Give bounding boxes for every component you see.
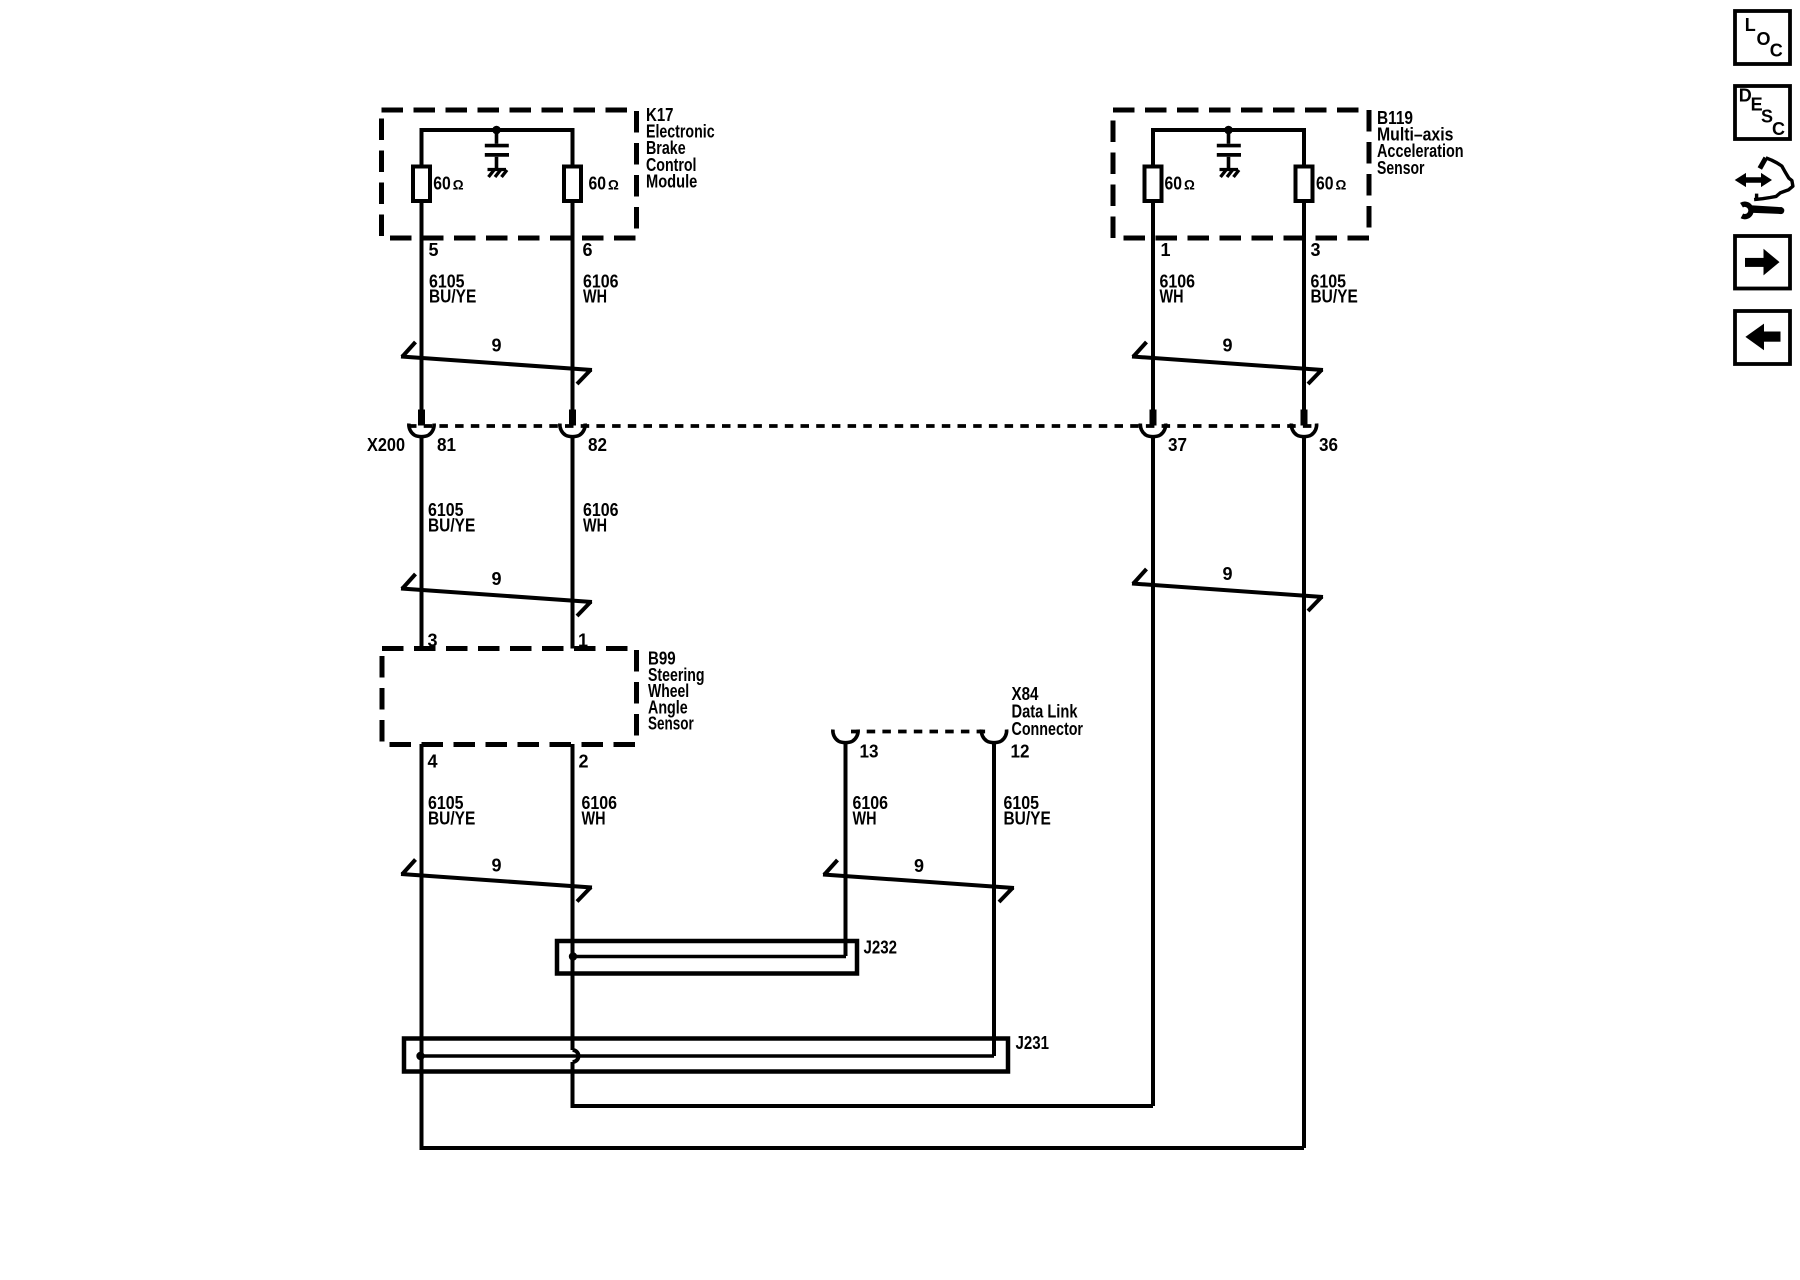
svg-text:36: 36: [1319, 435, 1338, 455]
twisted pair symbol (below X84): [823, 860, 1014, 902]
svg-text:J231: J231: [1016, 1033, 1050, 1053]
svg-text:82: 82: [588, 435, 607, 455]
twisted pair symbol (B119 side): [1132, 342, 1323, 384]
wire: J232 internal splice wire: [573, 955, 846, 959]
ground (B119 chassis ground): [1220, 170, 1240, 178]
svg-text:BU/YE: BU/YE: [1004, 809, 1051, 829]
X84 pin 12 terminal: [981, 730, 1006, 743]
svg-text:13: 13: [860, 742, 879, 762]
ground (K17 chassis ground): [488, 170, 508, 178]
X200 pin 36 terminal: [1291, 410, 1316, 437]
wire label 6105 BU/YE: [428, 793, 475, 829]
B99 sensor dashed box: [382, 649, 637, 745]
X84 label: [1012, 684, 1084, 739]
X200 pin 81 terminal: [409, 410, 434, 437]
svg-text:WH: WH: [583, 516, 607, 536]
svg-text:3: 3: [1311, 240, 1321, 260]
resistor 60ohm (B119 left): [1145, 167, 1162, 202]
svg-text:BU/YE: BU/YE: [429, 286, 476, 306]
svg-text:9: 9: [491, 856, 501, 876]
icon car with double arrow and wrench: [1735, 158, 1793, 217]
wire: K17 pin5 upper: [420, 128, 424, 167]
svg-text:C: C: [1770, 41, 1783, 61]
wire 6106 WH (B99-2 down through J232, J231 hop, across to X200-37): [571, 438, 1154, 1107]
connector X84 dashed line: [851, 730, 987, 734]
wire 6105 BU/YE (X200-81 to B99-3): [420, 438, 424, 649]
wire: B119 internal bus horizontal: [1151, 128, 1306, 132]
svg-text:9: 9: [1222, 564, 1232, 584]
wire label 6105 BU/YE: [1311, 271, 1358, 306]
wire label 6106 WH: [1160, 271, 1196, 306]
K17 label: [646, 105, 715, 191]
svg-text:Sensor: Sensor: [648, 714, 694, 734]
wire label 6106 WH: [582, 793, 618, 829]
wire label 6106 WH: [853, 793, 889, 829]
splice J231 box: [404, 1039, 1008, 1072]
wire: B119 pin3 upper: [1302, 128, 1306, 167]
svg-text:WH: WH: [582, 809, 606, 829]
svg-text:2: 2: [579, 752, 589, 772]
svg-text:6: 6: [583, 240, 593, 260]
wire 6105 BU/YE (B99-4 down to J231 and across to X200-36): [420, 438, 1305, 1149]
icon forward arrow box: [1735, 236, 1790, 289]
svg-text:9: 9: [491, 569, 501, 589]
capacitor C (B119 filter cap): [1217, 130, 1241, 168]
svg-text:Connector: Connector: [1012, 719, 1084, 739]
K17 module dashed box: [382, 110, 637, 238]
svg-text:9: 9: [1222, 336, 1232, 356]
node: K17 junction dot: [492, 126, 501, 135]
wire 6105 BU/YE (X84-12 down to J231): [992, 741, 996, 1056]
svg-text:Module: Module: [646, 171, 697, 191]
twisted pair symbol (below B99): [401, 860, 592, 902]
svg-text:81: 81: [437, 435, 456, 455]
svg-text:Sensor: Sensor: [1377, 158, 1425, 178]
wire: K17 internal bus horizontal: [420, 128, 575, 132]
wire: K17 pin6 upper: [571, 128, 575, 167]
B99 label: [648, 649, 705, 734]
B119 label: [1377, 108, 1464, 178]
wire: B119 pin1 upper: [1151, 128, 1155, 167]
wire label 6105 BU/YE: [1004, 793, 1051, 829]
wire label 6105 BU/YE: [429, 271, 476, 306]
wire label 6106 WH: [583, 500, 619, 536]
icon LOC box: [1735, 11, 1790, 64]
resistor 60ohm (K17 left): [413, 167, 430, 202]
svg-text:12: 12: [1011, 742, 1030, 762]
node: J232 splice dot: [569, 952, 577, 960]
svg-text:BU/YE: BU/YE: [1311, 286, 1358, 306]
wire label 6106 WH: [583, 271, 619, 306]
svg-text:J232: J232: [864, 938, 898, 958]
wire 6106 WH (K17 pin6 to X200-82): [571, 201, 575, 410]
svg-text:O: O: [1757, 29, 1771, 49]
splice J232 box: [557, 941, 857, 974]
wire 6105 BU/YE (K17 pin5 to X200-81): [420, 201, 424, 410]
connector X200 dashed line: [408, 424, 1318, 428]
svg-text:9: 9: [491, 336, 501, 356]
wire: J231 internal splice wire: [421, 1054, 995, 1058]
svg-text:1: 1: [1161, 240, 1171, 260]
B119 module dashed box: [1113, 110, 1369, 238]
svg-text:WH: WH: [583, 286, 607, 306]
svg-text:BU/YE: BU/YE: [428, 809, 475, 829]
wire 6106 WH (B119 pin1 to X200-37): [1151, 201, 1155, 410]
wire 6106 WH (X84-13 down to J232): [844, 741, 848, 956]
svg-text:L: L: [1745, 15, 1756, 35]
twisted pair symbol (above B99): [401, 574, 592, 616]
svg-text:BU/YE: BU/YE: [428, 516, 475, 536]
svg-text:4: 4: [428, 752, 438, 772]
capacitor C (K17 filter cap): [485, 130, 509, 168]
X200 pin 82 terminal: [560, 410, 585, 437]
svg-text:X200: X200: [367, 435, 405, 455]
node: B119 junction dot: [1224, 126, 1233, 135]
svg-text:37: 37: [1168, 435, 1187, 455]
svg-text:WH: WH: [1160, 286, 1184, 306]
icon DESC box: [1735, 86, 1790, 139]
twisted pair symbol (K17 side): [401, 342, 592, 384]
wire label 6105 BU/YE: [428, 500, 475, 536]
wire 6105 BU/YE (B119 pin3 to X200-36): [1302, 201, 1306, 410]
svg-text:9: 9: [914, 856, 924, 876]
svg-text:C: C: [1772, 119, 1785, 139]
svg-text:WH: WH: [853, 809, 877, 829]
node: J231 splice dot: [416, 1052, 424, 1060]
svg-text:5: 5: [429, 240, 439, 260]
wire 6106 WH (X200-82 to B99-1): [571, 438, 575, 649]
X84 pin 13 terminal: [833, 730, 858, 743]
resistor 60ohm (K17 right): [564, 167, 581, 202]
resistor 60ohm (B119 right): [1296, 167, 1313, 202]
icon back arrow box: [1735, 311, 1790, 364]
twisted pair symbol (right, below X200): [1132, 569, 1323, 611]
X200 pin 37 terminal: [1140, 410, 1165, 437]
